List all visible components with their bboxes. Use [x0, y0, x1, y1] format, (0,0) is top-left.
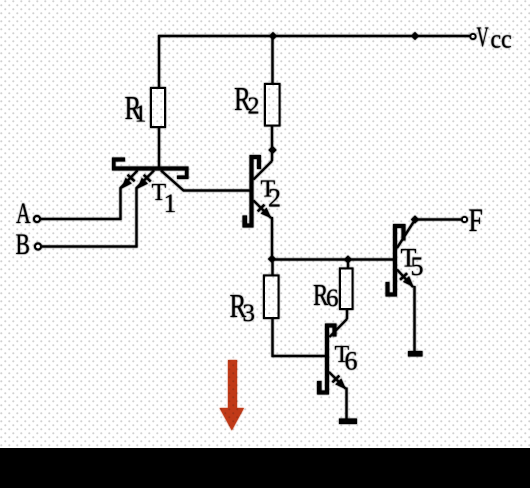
bottom black bar	[0, 448, 530, 488]
blurred halo copy	[16, 21, 512, 430]
crisp copy	[16, 21, 512, 430]
